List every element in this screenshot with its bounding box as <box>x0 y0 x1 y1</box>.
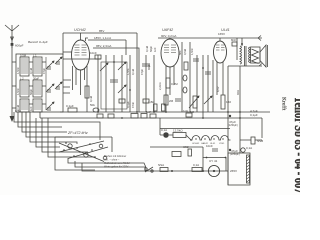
svg-text:165V: 165V <box>218 32 225 36</box>
svg-text:95V, 2,3mA: 95V, 2,3mA <box>96 44 111 48</box>
svg-text:0,1M: 0,1M <box>16 104 20 111</box>
svg-text:47pF: 47pF <box>140 69 144 75</box>
svg-text:10nF: 10nF <box>90 51 97 55</box>
svg-text:185V, 1,1mA: 185V, 1,1mA <box>94 36 111 40</box>
svg-text:1,5nF: 1,5nF <box>16 88 20 95</box>
svg-text:Tenor Sb 83 - 64 - 607: Tenor Sb 83 - 64 - 607 <box>291 97 300 194</box>
svg-text:Werte gelten für 220V~: Werte gelten für 220V~ <box>104 166 130 169</box>
svg-text:NSA: NSA <box>158 163 164 167</box>
svg-text:L 1: L 1 <box>33 54 37 58</box>
svg-text:0,1M: 0,1M <box>29 67 33 74</box>
svg-text:0,1M: 0,1M <box>131 68 135 75</box>
svg-text:Krefft: Krefft <box>281 97 288 111</box>
svg-text:50k: 50k <box>90 103 95 107</box>
svg-text:(2x50µF): (2x50µF) <box>228 124 238 127</box>
svg-text:UAF42: UAF42 <box>162 28 173 32</box>
svg-text:1,5nF: 1,5nF <box>126 68 130 75</box>
svg-text:0,1M: 0,1M <box>89 95 93 102</box>
svg-text:90V, 0,2mA: 90V, 0,2mA <box>161 34 176 38</box>
svg-text:50pF: 50pF <box>29 89 33 95</box>
svg-text:UCH42: UCH42 <box>74 28 86 32</box>
svg-text:2M: 2M <box>169 99 174 103</box>
svg-text:0,5M: 0,5M <box>183 48 187 55</box>
svg-text:0,1µF: 0,1µF <box>250 113 258 117</box>
svg-text:50pF: 50pF <box>149 46 153 52</box>
svg-text:UL41: UL41 <box>221 28 230 32</box>
svg-text:40Ω: 40Ω <box>236 90 240 95</box>
svg-text:1nF: 1nF <box>146 110 151 114</box>
svg-text:1,5nF: 1,5nF <box>190 48 194 55</box>
svg-text:40pF: 40pF <box>147 64 151 70</box>
svg-text:265V: 265V <box>230 169 237 173</box>
svg-text:UY 41: UY 41 <box>209 159 218 163</box>
svg-text:UCH42: UCH42 <box>192 143 200 145</box>
svg-text:U52: U52 <box>183 145 189 149</box>
svg-text:0,1M: 0,1M <box>145 45 149 52</box>
svg-text:UY41: UY41 <box>219 143 225 145</box>
svg-text:0,1µF: 0,1µF <box>66 104 74 108</box>
svg-text:0,1µF: 0,1µF <box>126 101 130 108</box>
svg-text:0,2M: 0,2M <box>171 82 178 86</box>
svg-text:10nF: 10nF <box>206 144 213 148</box>
svg-text:0,5M: 0,5M <box>20 54 27 58</box>
svg-text:85V: 85V <box>99 29 104 33</box>
svg-text:NSB: NSB <box>257 139 263 143</box>
svg-text:600pF: 600pF <box>15 44 24 48</box>
svg-text:1nF: 1nF <box>153 47 157 52</box>
svg-text:1nF: 1nF <box>29 106 33 111</box>
svg-text:5nF: 5nF <box>178 50 182 55</box>
svg-text:1,8k: 1,8k <box>148 100 154 104</box>
svg-text:0,1A: 0,1A <box>193 163 199 167</box>
svg-text:0,1A: 0,1A <box>161 128 167 132</box>
svg-text:30pF: 30pF <box>33 77 39 81</box>
svg-text:12,5kΩ: 12,5kΩ <box>173 129 183 133</box>
svg-text:Bereich 0–4µF: Bereich 0–4µF <box>28 40 48 44</box>
svg-text:47nF: 47nF <box>131 102 135 108</box>
svg-text:ZF=472 kHz: ZF=472 kHz <box>67 131 88 135</box>
svg-text:47pF: 47pF <box>42 68 46 74</box>
svg-text:0,1A: 0,1A <box>246 146 252 150</box>
svg-text:150: 150 <box>226 100 231 104</box>
svg-text:L 2: L 2 <box>20 77 24 81</box>
svg-text:8nF: 8nF <box>231 38 236 42</box>
svg-text:1,5nF: 1,5nF <box>16 67 20 74</box>
svg-text:2,2mA: 2,2mA <box>158 82 162 90</box>
svg-text:1nF: 1nF <box>183 109 188 113</box>
svg-text:8,5V: 8,5V <box>216 86 220 92</box>
svg-text:(2x50µF): (2x50µF) <box>230 153 240 156</box>
